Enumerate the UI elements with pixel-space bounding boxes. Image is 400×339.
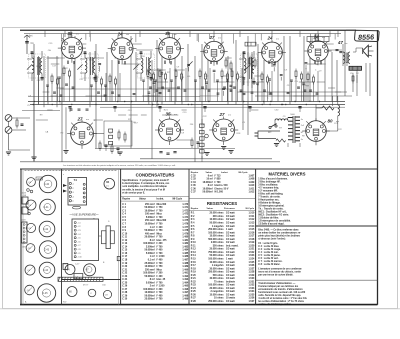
svg-text:50.000mf: 50.000mf (203, 192, 213, 194)
svg-text:1.524: 1.524 (248, 258, 255, 261)
svg-text:sont multipliés. La référence: sont multipliés. La référence mil indiqu… (122, 185, 167, 188)
svg-text:C 13: C 13 (122, 243, 128, 245)
svg-text:1/3 watt: 1/3 watt (226, 287, 235, 290)
svg-text:47: 47 (337, 40, 343, 45)
svg-text:100.000mf: 100.000mf (143, 289, 154, 291)
svg-text:8 Haut-parleur exc.: 8 Haut-parleur exc. (258, 198, 279, 201)
svg-text:2.500mf: 2.500mf (146, 246, 155, 248)
svg-text:50.000 ohms: 50.000 ohms (210, 255, 225, 257)
svg-text:CG: CG (295, 81, 299, 83)
svg-text:INT.: INT. (268, 132, 272, 134)
svg-text:1.519: 1.519 (248, 242, 255, 244)
svg-text:Mica: Mica (157, 214, 163, 216)
svg-text:1.521: 1.521 (248, 249, 255, 251)
svg-text:27: 27 (208, 35, 215, 40)
svg-text:27: 27 (76, 117, 83, 122)
svg-text:Mf-Cycle: Mf-Cycle (173, 199, 183, 201)
svg-text:15.000 ohms: 15.000 ohms (210, 294, 225, 296)
svg-text:10.000 ohms: 10.000 ohms (210, 219, 225, 221)
svg-text:-C10: -C10 (78, 257, 82, 259)
svg-text:C 12: C 12 (122, 240, 128, 242)
svg-text:1503: 1503 (37, 178, 41, 180)
svg-text:C 37: C 37 (191, 192, 197, 194)
svg-text:R 21: R 21 (191, 278, 197, 280)
svg-text:Mica 600: Mica 600 (157, 220, 167, 222)
svg-text:89C1 : Oscillation HF sél.,: 89C1 : Oscillation HF sél., (258, 210, 287, 213)
svg-text:C 33: C 33 (191, 179, 197, 181)
svg-text:500.000 ohms: 500.000 ohms (208, 239, 224, 241)
svg-text:100.000 ohms: 100.000 ohms (208, 259, 224, 261)
svg-text:1.471: 1.471 (182, 206, 189, 209)
svg-text:1.911: 1.911 (249, 188, 255, 190)
svg-text:F 850: F 850 (215, 179, 222, 181)
svg-text:C 24: C 24 (122, 278, 128, 281)
svg-text:F 200: F 200 (157, 273, 164, 275)
svg-text:75 ohms: 75 ohms (214, 281, 224, 283)
svg-text:10 mf: 10 mf (206, 179, 212, 181)
svg-text:W-Cycle: W-Cycle (246, 208, 255, 210)
svg-text:R 20: R 20 (191, 275, 197, 277)
svg-text:1.530: 1.530 (248, 278, 255, 280)
svg-text:F 700: F 700 (157, 282, 164, 284)
svg-text:100.000 ohms: 100.000 ohms (208, 232, 224, 234)
svg-text:C 20: C 20 (122, 266, 128, 268)
svg-text:1.483: 1.483 (182, 245, 189, 248)
svg-text:Mica: Mica (157, 233, 163, 235)
svg-text:1/3 watt: 1/3 watt (226, 215, 235, 218)
svg-text:100 mmf: 100 mmf (145, 214, 155, 216)
svg-text:20.000mf: 20.000mf (145, 237, 155, 239)
svg-text:27: 27 (218, 112, 225, 117)
svg-text:Repère: Repère (122, 199, 131, 201)
svg-text:1.511: 1.511 (249, 216, 255, 218)
svg-text:C 4 : sortie fil noir.: C 4 : sortie fil noir. (258, 251, 279, 254)
svg-text:-C4: -C4 (78, 234, 81, 236)
svg-text:30.000 ohms: 30.000 ohms (210, 268, 225, 270)
svg-text:1.477: 1.477 (182, 226, 189, 229)
svg-text:par une tresse de cuivre blind: par une tresse de cuivre blindé. (258, 274, 293, 277)
svg-text:R 28: R 28 (191, 301, 197, 303)
svg-text:C1 : sortie fil gris.: C1 : sortie fil gris. (258, 242, 278, 245)
svg-text:35: 35 (165, 31, 171, 36)
svg-text:M 1.500: M 1.500 (215, 192, 224, 194)
svg-text:fonctionnent sous secteurs alt: fonctionnent sous secteurs alt. 110 ou 2… (258, 291, 306, 294)
svg-text:1.474: 1.474 (182, 216, 189, 219)
svg-text:1/3 watt: 1/3 watt (226, 238, 235, 241)
svg-text:pérés plus haut (étoile) et le: pérés plus haut (étoile) et les bobines (258, 234, 300, 237)
svg-text:250 mmf: 250 mmf (145, 269, 155, 271)
svg-text:1.478: 1.478 (182, 229, 189, 232)
svg-text:-C6: -C6 (78, 241, 81, 243)
svg-text:1-2: 1-2 (356, 73, 359, 75)
svg-text:89C2 : Oscillation 4 O série.: 89C2 : Oscillation 4 O série. (258, 213, 289, 216)
svg-text:1/2 watt: 1/2 watt (226, 267, 235, 270)
svg-text:C 36: C 36 (191, 188, 197, 190)
svg-text:1/3 watt: 1/3 watt (226, 271, 235, 274)
svg-text:1.482: 1.482 (182, 242, 189, 245)
svg-text:teurs est à la masse du châssi: teurs est à la masse du châssis, sortie (258, 270, 301, 273)
svg-text:250.000 ohms: 250.000 ohms (208, 229, 224, 231)
svg-text:Electro. 500: Electro. 500 (215, 184, 229, 187)
svg-text:enroulements du transfo. d'ali: enroulements du transfo. d'alimentation (258, 288, 303, 291)
svg-text:F 400: F 400 (157, 249, 164, 252)
svg-text:1/3 watt: 1/3 watt (226, 254, 235, 257)
svg-text:2.000 ohms: 2.000 ohms (211, 242, 224, 244)
svg-text:1.516: 1.516 (248, 232, 255, 234)
svg-text:1.909: 1.909 (248, 182, 255, 184)
svg-text:Isolmt.: Isolmt. (157, 198, 165, 201)
svg-text:Mf-Cycle: Mf-Cycle (239, 172, 249, 174)
svg-text:C-45: C-45 (43, 293, 49, 295)
svg-text:2 mf: 2 mf (150, 286, 155, 288)
svg-text:1.496: 1.496 (182, 288, 189, 291)
svg-text:Repère: Repère (191, 172, 199, 174)
svg-text:100.000 ohms: 100.000 ohms (208, 285, 224, 287)
svg-text:Valeur: Valeur (207, 208, 214, 210)
svg-text:C 25: C 25 (122, 282, 128, 284)
svg-text:F 400: F 400 (157, 295, 164, 298)
svg-text:1/3 watt: 1/3 watt (226, 222, 235, 225)
svg-text:12 Interrupteur de sensibilit: 12 Interrupteur de sensibilité. (258, 219, 291, 222)
svg-text:1.487: 1.487 (182, 259, 189, 262)
svg-text:C 29: C 29 (122, 296, 128, 298)
svg-text:50.000mf: 50.000mf (145, 276, 155, 278)
svg-text:1 mégohm: 1 mégohm (212, 226, 224, 228)
svg-text:24: 24 (117, 31, 124, 36)
svg-text:1.499: 1.499 (182, 298, 189, 301)
svg-text:24: 24 (266, 36, 273, 41)
svg-text:1 watt: 1 watt (226, 228, 233, 231)
svg-text:C-43: C-43 (44, 250, 50, 252)
svg-text:1.531: 1.531 (248, 281, 255, 283)
svg-text:10.000mf: 10.000mf (145, 266, 155, 268)
svg-text:1.472: 1.472 (182, 209, 189, 212)
svg-text:1/3 watt: 1/3 watt (226, 231, 235, 234)
svg-text:1.537: 1.537 (248, 301, 255, 303)
svg-text:R 23: R 23 (191, 285, 197, 287)
svg-text:C 6 : sortie fil vert.: C 6 : sortie fil vert. (258, 257, 279, 260)
svg-text:F 700: F 700 (157, 237, 164, 239)
svg-text:C-40: C-40 (44, 184, 50, 186)
svg-text:1.512: 1.512 (248, 219, 255, 221)
svg-text:1.491: 1.491 (182, 272, 189, 275)
svg-text:C 10: C 10 (122, 233, 128, 235)
svg-text:1 Bloc d'accord d'antenne.: 1 Bloc d'accord d'antenne. (258, 177, 288, 180)
svg-text:C 22: C 22 (122, 273, 128, 275)
svg-text:1.535: 1.535 (248, 294, 255, 296)
svg-text:1.520: 1.520 (248, 245, 255, 247)
svg-text:0,1 mf: 0,1 mf (148, 260, 155, 262)
svg-text:8 mf: 8 mf (208, 185, 213, 187)
svg-text:1.527: 1.527 (248, 268, 255, 270)
svg-text:8 mf: 8 mf (150, 279, 155, 281)
svg-text:R 18: R 18 (191, 268, 197, 270)
svg-text:1.514: 1.514 (248, 225, 255, 228)
svg-text:C 3 : sortie fil rouge.: C 3 : sortie fil rouge. (258, 248, 281, 251)
svg-text:R 25: R 25 (191, 291, 197, 293)
svg-text:C 26: C 26 (122, 286, 128, 288)
svg-text:6 mf: 6 mf (208, 175, 213, 177)
svg-text:16.000mf: 16.000mf (203, 182, 213, 184)
svg-text:5 2º moyenne MF.: 5 2º moyenne MF. (258, 189, 278, 192)
svg-text:bobinée: bobinée (226, 281, 236, 283)
svg-text:11 Bobine de filtre.: 11 Bobine de filtre. (258, 216, 279, 219)
svg-text:1.523: 1.523 (248, 255, 255, 257)
svg-text:10.000mf: 10.000mf (203, 188, 213, 190)
svg-text:1.485: 1.485 (182, 252, 189, 255)
svg-text:Spécifications : F polyester,: Spécifications : F polyester, mica moulé… (122, 179, 169, 182)
svg-text:1 watt: 1 watt (226, 258, 233, 261)
svg-text:C 23: C 23 (122, 276, 128, 278)
svg-text:1.515: 1.515 (248, 229, 255, 231)
svg-text:1.479: 1.479 (182, 232, 189, 235)
svg-text:bob. mand.: bob. mand. (226, 245, 239, 247)
svg-text:50.000mf: 50.000mf (145, 296, 155, 298)
svg-text:R 17: R 17 (191, 265, 197, 267)
svg-text:1.473: 1.473 (182, 213, 189, 216)
svg-text:1 mf: 1 mf (150, 227, 155, 229)
svg-text:50.000mf: 50.000mf (145, 230, 155, 232)
svg-text:8 mf: 8 mf (150, 240, 155, 242)
svg-text:F 700: F 700 (157, 253, 164, 255)
svg-text:F 400: F 400 (157, 226, 164, 229)
svg-text:C 28: C 28 (122, 292, 128, 294)
svg-text:1/2 watt: 1/2 watt (226, 241, 235, 244)
svg-text:1/3 watt: 1/3 watt (226, 290, 235, 293)
svg-text:M O T: M O T (83, 285, 89, 287)
svg-text:C 11: C 11 (122, 237, 127, 239)
svg-text:-C8: -C8 (78, 249, 81, 251)
svg-text:CA: CA (31, 42, 35, 45)
svg-text:1.481: 1.481 (182, 239, 189, 242)
svg-text:F 200: F 200 (157, 289, 164, 291)
svg-text:10.000mf: 10.000mf (145, 224, 155, 226)
svg-text:1.533: 1.533 (248, 288, 255, 290)
svg-text:10 Interrupteur général.: 10 Interrupteur général. (258, 204, 284, 207)
svg-text:25.000 ohms: 25.000 ohms (210, 249, 225, 251)
svg-text:R 22: R 22 (191, 281, 197, 283)
svg-text:1 mégohm: 1 mégohm (212, 265, 224, 267)
svg-text:F 750: F 750 (157, 266, 164, 268)
svg-text:1.910: 1.910 (248, 185, 255, 187)
svg-text:F 750: F 750 (157, 207, 164, 209)
svg-text:1.908: 1.908 (248, 179, 255, 181)
svg-text:4v: 4v (301, 119, 303, 121)
svg-text:Electro. 50 V: Electro. 50 V (215, 187, 229, 190)
svg-text:1.490: 1.490 (182, 268, 189, 271)
svg-text:4v: 4v (301, 139, 303, 141)
svg-text:10.000mf: 10.000mf (145, 292, 155, 294)
svg-text:35: 35 (165, 112, 171, 117)
svg-text:-C7: -C7 (78, 245, 81, 247)
svg-text:1.494: 1.494 (182, 281, 189, 284)
svg-text:R 19: R 19 (191, 272, 197, 274)
svg-text:35: 35 (67, 31, 73, 36)
svg-text:CONDENSATEURS: CONDENSATEURS (136, 173, 175, 178)
svg-text:Ant: Ant (29, 35, 33, 38)
svg-text:F 1.500: F 1.500 (157, 286, 166, 288)
svg-text:—VUE SUPERIEURE—: —VUE SUPERIEURE— (69, 212, 99, 216)
svg-text:volts. Survolté le Uni. dépend: volts. Survolté le Uni. dépend 5lre app. (258, 294, 301, 297)
svg-text:1.470: 1.470 (182, 203, 189, 206)
svg-text:1/3 watt: 1/3 watt (226, 248, 235, 251)
svg-text:1.480: 1.480 (182, 236, 189, 239)
svg-text:R 12: R 12 (191, 249, 197, 251)
svg-text:F 700: F 700 (157, 246, 164, 248)
svg-text:80: 80 (327, 119, 333, 124)
svg-text:13 Selfs d'accord régul.: 13 Selfs d'accord régul. (258, 223, 284, 225)
svg-text:1/3 watt: 1/3 watt (226, 235, 235, 238)
svg-text:1/3 watt: 1/3 watt (226, 300, 235, 303)
svg-text:1.529: 1.529 (248, 275, 255, 277)
svg-text:4 volts AF et la même outre :: 4 volts AF et la même outre : 1º Fus des… (258, 297, 307, 300)
svg-text:-C9: -C9 (78, 253, 81, 255)
svg-text:Elec. 25: Elec. 25 (157, 279, 166, 281)
svg-text:2 mégohms: 2 mégohms (211, 291, 225, 293)
svg-text:F 700: F 700 (157, 224, 164, 226)
svg-text:-5: -5 (72, 201, 74, 203)
svg-text:9 Bobine de filtrage.: 9 Bobine de filtrage. (258, 201, 281, 204)
svg-text:1.486: 1.486 (182, 255, 189, 258)
svg-text:1.475: 1.475 (182, 219, 189, 222)
svg-text:-C3: -C3 (78, 230, 81, 232)
svg-text:RESISTANCES: RESISTANCES (207, 201, 237, 206)
svg-text:R 16: R 16 (191, 262, 197, 264)
svg-text:250 mmf: 250 mmf (145, 220, 155, 222)
svg-text:R 10: R 10 (191, 242, 197, 244)
svg-text:250.000 ohms: 250.000 ohms (208, 272, 224, 274)
svg-text:1.517: 1.517 (248, 236, 255, 238)
svg-text:F 700: F 700 (157, 263, 164, 265)
svg-text:en mille, la tension d'essai p: en mille, la tension d'essai pour F et M (122, 188, 165, 191)
svg-text:1 mf: 1 mf (150, 256, 155, 258)
svg-text:1/3 watt: 1/3 watt (226, 225, 235, 228)
svg-text:1.526: 1.526 (248, 265, 255, 267)
svg-text:350 ohms: 350 ohms (213, 245, 224, 247)
svg-text:8556: 8556 (358, 32, 375, 41)
svg-text:3 Bloc oscillateur.: 3 Bloc oscillateur. (258, 183, 278, 186)
svg-text:MATERIEL DIVERS: MATERIEL DIVERS (269, 172, 306, 177)
svg-text:-1: -1 (72, 184, 74, 186)
svg-text:C 30: C 30 (122, 299, 128, 301)
svg-text:1.532: 1.532 (248, 285, 255, 287)
svg-text:20.000 ohms: 20.000 ohms (210, 288, 225, 290)
svg-text:25.000 ohms: 25.000 ohms (210, 213, 225, 215)
svg-text:Bloc 5495. — Ce bloc renferme: Bloc 5495. — Ce bloc renferme dans (258, 228, 299, 231)
svg-text:C 14: C 14 (122, 245, 128, 248)
svg-text:F 400: F 400 (157, 275, 164, 278)
svg-text:1.476: 1.476 (182, 223, 189, 226)
svg-text:les sorties d'alimentation ; 2: les sorties d'alimentation ; 2º Fu 75 oh… (258, 300, 304, 303)
svg-text:400 mmf: 400 mmf (145, 232, 155, 235)
svg-text:C 7 : sortie fil marron.: C 7 : sortie fil marron. (258, 260, 282, 263)
svg-text:1/3 watt: 1/3 watt (226, 264, 235, 267)
svg-text:1/2 watt: 1/2 watt (226, 293, 235, 296)
svg-text:-C1: -C1 (78, 222, 81, 224)
svg-text:15.000 ohms: 15.000 ohms (210, 236, 225, 238)
svg-text:1.536: 1.536 (248, 298, 255, 300)
svg-text:10 ohms: 10 ohms (214, 298, 224, 300)
svg-text:40.000 ohms: 40.000 ohms (210, 277, 225, 280)
svg-text:50.000 ohms: 50.000 ohms (210, 223, 225, 225)
svg-text:84: 84 (106, 180, 109, 184)
svg-text:R 27: R 27 (191, 298, 197, 300)
svg-text:F 1.500: F 1.500 (157, 256, 166, 258)
svg-text:Valeur: Valeur (206, 172, 213, 174)
svg-text:4 1º moyenne fréq.: 4 1º moyenne fréq. (258, 186, 279, 189)
svg-text:R 14: R 14 (191, 254, 197, 257)
svg-text:50.000mf: 50.000mf (145, 250, 155, 252)
svg-text:Mica: Mica (157, 269, 163, 271)
svg-text:Th. : Transfo de sortie,: Th. : Transfo de sortie, (258, 207, 283, 210)
svg-text:R 15: R 15 (191, 259, 197, 261)
svg-text:R 26: R 26 (191, 294, 197, 296)
svg-text:F 700: F 700 (157, 292, 164, 294)
svg-text:R 24: R 24 (191, 287, 197, 290)
svg-text:E électrolytique. C céramique,: E électrolytique. C céramique, M mica, c… (122, 182, 170, 185)
svg-text:F 200: F 200 (157, 243, 164, 245)
svg-text:5.000mf: 5.000mf (146, 282, 155, 284)
svg-text:F 700: F 700 (215, 182, 222, 184)
svg-text:10 watts: 10 watts (226, 297, 236, 300)
svg-text:250 mmf: 250 mmf (145, 204, 155, 206)
svg-text:C 35: C 35 (191, 185, 197, 187)
svg-text:1.493: 1.493 (182, 278, 189, 281)
svg-text:-3: -3 (72, 192, 74, 194)
svg-text:R 13: R 13 (191, 252, 197, 254)
svg-text:1.522: 1.522 (248, 252, 255, 254)
svg-text:1/3 watt: 1/3 watt (226, 274, 235, 277)
svg-text:F 700: F 700 (157, 217, 164, 219)
svg-text:10.000mf: 10.000mf (145, 210, 155, 212)
svg-text:1.498: 1.498 (182, 295, 189, 298)
svg-text:250.000 ohms: 250.000 ohms (208, 301, 224, 303)
svg-text:Comme indiqué par ses lettrine: Comme indiqué par ses lettrines les (258, 285, 299, 288)
svg-text:R 11: R 11 (191, 245, 196, 247)
svg-text:750.000 ohms: 750.000 ohms (208, 252, 224, 254)
svg-text:25.000mf: 25.000mf (145, 299, 155, 301)
svg-text:Valeur: Valeur (139, 199, 146, 201)
svg-text:1.489: 1.489 (182, 265, 189, 268)
svg-text:C 17: C 17 (122, 256, 128, 258)
svg-text:1/2 watt: 1/2 watt (226, 218, 235, 221)
svg-text:Repère: Repère (191, 208, 199, 210)
svg-text:F 713: F 713 (215, 175, 222, 177)
svg-text:7 Transfo. de sortie.: 7 Transfo. de sortie. (258, 195, 280, 198)
svg-text:1.518: 1.518 (248, 239, 255, 241)
svg-text:1.534: 1.534 (248, 290, 255, 293)
svg-text:25.000mf: 25.000mf (145, 263, 155, 265)
svg-text:300 ohms: 300 ohms (213, 216, 224, 218)
svg-text:Mica 600: Mica 600 (157, 204, 167, 206)
svg-text:1/3 watt: 1/3 watt (226, 261, 235, 264)
svg-text:C 5 : sortie fil jaune.: C 5 : sortie fil jaune. (258, 254, 280, 257)
svg-text:1.484: 1.484 (182, 249, 189, 252)
svg-text:1.488: 1.488 (182, 262, 189, 265)
svg-text:1.510: 1.510 (248, 213, 255, 215)
svg-text:1.907: 1.907 (248, 175, 255, 177)
svg-text:-C5: -C5 (78, 238, 81, 240)
svg-text:F 400: F 400 (157, 259, 164, 262)
svg-text:Transformateur d'alimentation.: Transformateur d'alimentation. — (258, 282, 296, 285)
svg-text:F 750: F 750 (157, 230, 164, 232)
svg-text:1/3 watt: 1/3 watt (226, 277, 235, 280)
svg-text:-2: -2 (72, 188, 74, 190)
svg-text:Elec. 475: Elec. 475 (157, 239, 168, 242)
svg-text:C 16: C 16 (122, 253, 128, 255)
svg-text:1.492: 1.492 (182, 275, 189, 278)
svg-text:Les tensions ont été relevées: Les tensions ont été relevées entre les … (63, 164, 176, 167)
